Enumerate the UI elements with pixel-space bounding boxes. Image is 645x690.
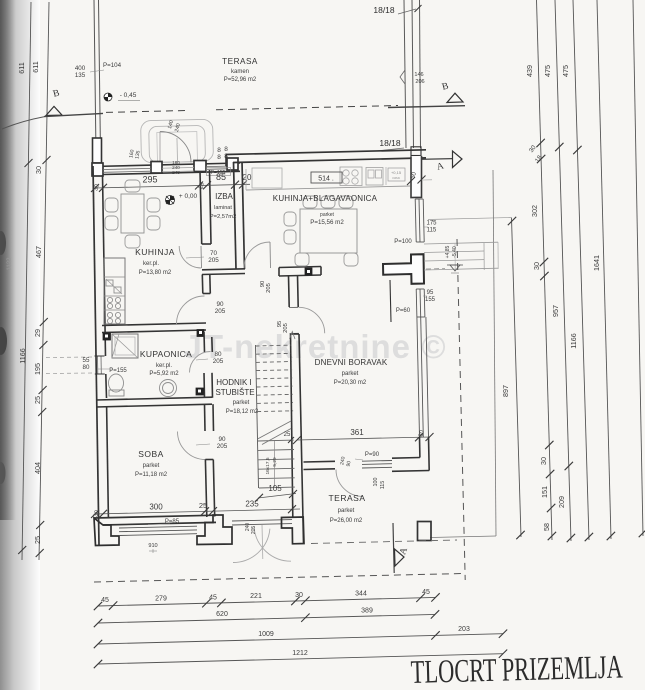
kitchen counter [104, 258, 125, 324]
svg-text:235: 235 [245, 500, 259, 509]
svg-text:5,29: 5,29 [272, 457, 278, 467]
svg-text:205: 205 [217, 443, 228, 450]
scan blob 3 [0, 462, 6, 484]
svg-text:1641: 1641 [592, 255, 601, 271]
svg-text:parket: parket [143, 463, 160, 469]
svg-text:439: 439 [525, 65, 534, 77]
svg-text:90: 90 [218, 436, 226, 443]
svg-text:389: 389 [361, 607, 373, 614]
svg-text:SOBA: SOBA [138, 449, 164, 459]
chimney lines top right [404, 0, 406, 148]
svg-text:146: 146 [414, 72, 423, 78]
svg-text:611: 611 [17, 62, 26, 73]
soba east wall [204, 404, 207, 431]
kitchen terrace door arc [160, 132, 191, 163]
svg-text:897: 897 [501, 385, 510, 397]
staircase [256, 332, 296, 489]
terrace window P90 [362, 460, 392, 463]
svg-text:25: 25 [33, 536, 42, 544]
svg-text:400: 400 [75, 65, 86, 72]
vest line [390, 280, 391, 322]
west wall inner lower [107, 406, 109, 517]
hall west wall upper [201, 275, 204, 294]
svg-text:205: 205 [208, 257, 219, 264]
svg-text:parket: parket [342, 371, 359, 377]
svg-text:P=20,30 m2: P=20,30 m2 [334, 380, 367, 386]
door stop sq bath [196, 388, 204, 395]
section marker A bottom [393, 523, 394, 573]
living south wall left [304, 460, 336, 463]
marker -0,45 [104, 92, 140, 101]
soba door arc [178, 432, 206, 460]
dim row soba [95, 509, 300, 514]
izba west wall [200, 171, 202, 244]
entry dashes [426, 268, 445, 271]
svg-text:475: 475 [561, 65, 570, 77]
izba door arc [200, 246, 203, 268]
svg-text:205: 205 [266, 283, 272, 293]
hall se pier [282, 517, 305, 544]
dining step connector [225, 155, 227, 167]
svg-text:209: 209 [557, 496, 566, 508]
svg-text:KUHINJA: KUHINJA [135, 247, 175, 257]
izba window north [206, 165, 227, 168]
svg-text:P=18,12 m2: P=18,12 m2 [226, 409, 259, 415]
svg-text:16x17,5: 16x17,5 [265, 457, 271, 474]
svg-text:- 0,45: - 0,45 [120, 92, 137, 99]
west wall outer [93, 166, 99, 545]
svg-text:240: 240 [172, 170, 180, 175]
svg-text:ker.pl.: ker.pl. [156, 363, 172, 369]
north wall dining outer [226, 150, 426, 155]
svg-text:laminat: laminat [214, 205, 232, 211]
terrace door arc [336, 470, 363, 497]
entry steps [424, 242, 498, 244]
svg-text:18/18: 18/18 [379, 138, 401, 148]
svg-text:45: 45 [101, 597, 109, 604]
svg-text:910: 910 [148, 543, 157, 549]
svg-text:205: 205 [251, 526, 257, 535]
svg-text:467: 467 [34, 246, 43, 258]
svg-text:45: 45 [422, 589, 430, 596]
svg-text:8: 8 [217, 154, 221, 161]
svg-text:HODNIK I: HODNIK I [216, 378, 252, 387]
bath door arc [190, 352, 211, 373]
svg-text:parket: parket [338, 508, 355, 514]
north wall kitchen outer [93, 163, 240, 167]
svg-text:206: 206 [415, 79, 424, 85]
svg-text:TERASA: TERASA [328, 493, 365, 503]
soba se pier [197, 515, 232, 545]
svg-text:45: 45 [209, 594, 217, 601]
dining table [284, 196, 358, 266]
svg-text:DNEVNI BORAVAK: DNEVNI BORAVAK [315, 358, 388, 367]
svg-text:P=100: P=100 [394, 239, 412, 245]
svg-text:20: 20 [243, 173, 252, 182]
terrace pillar [418, 522, 432, 541]
svg-text:parket: parket [320, 212, 335, 218]
svg-text:58: 58 [542, 523, 551, 531]
T wall horizontal [279, 267, 321, 268]
svg-text:205: 205 [213, 358, 224, 365]
kitchen table [105, 180, 160, 248]
terrace dashed north [311, 540, 457, 544]
svg-text:1166: 1166 [569, 333, 578, 348]
terrace dashed south [94, 574, 463, 583]
title TLOCRT PRIZEMLJA [410, 649, 623, 690]
bathroom fixtures [109, 334, 177, 397]
living window east [417, 317, 420, 437]
bath east wall lower [203, 373, 206, 398]
window 95/155 east [415, 289, 418, 317]
svg-text:STUBIŠTE: STUBIŠTE [215, 388, 254, 397]
svg-text:155: 155 [425, 297, 436, 303]
dining window east [415, 199, 416, 242]
svg-text:1009: 1009 [258, 631, 274, 638]
svg-text:29: 29 [33, 329, 42, 337]
svg-text:IZBA: IZBA [215, 192, 233, 201]
bath south wall [96, 397, 212, 400]
living south corner [428, 437, 431, 471]
kitchen door threshold [162, 167, 194, 170]
kitchen south wall [102, 323, 206, 326]
svg-text:TERASA: TERASA [222, 57, 258, 66]
dining west wall [234, 162, 237, 269]
svg-text:+0,15: +0,15 [391, 170, 402, 175]
svg-text:344: 344 [355, 591, 367, 598]
svg-text:475: 475 [543, 65, 552, 77]
svg-text:300: 300 [149, 503, 163, 512]
chimney box [411, 147, 421, 156]
svg-text:302: 302 [530, 205, 539, 217]
svg-text:404: 404 [33, 462, 42, 474]
soba window [119, 526, 197, 528]
svg-text:95: 95 [427, 290, 434, 296]
svg-text:279: 279 [155, 596, 167, 603]
svg-text:P=26,00 m2: P=26,00 m2 [330, 518, 363, 524]
svg-text:175: 175 [426, 221, 437, 227]
svg-text:115: 115 [427, 228, 437, 234]
svg-text:P=11,18 m2: P=11,18 m2 [135, 472, 168, 478]
terrace dashed east [457, 239, 465, 580]
svg-text:295: 295 [142, 175, 157, 185]
scan blob 2 [0, 327, 7, 355]
hall north wall [202, 269, 245, 270]
dim 897 ext line [428, 218, 512, 220]
svg-text:kamen: kamen [231, 69, 249, 75]
north pier 3 [194, 161, 206, 172]
north wall dining inner [233, 158, 426, 163]
svg-text:115: 115 [380, 481, 386, 490]
svg-text:KUHINJA+BLAGAVAONICA: KUHINJA+BLAGAVAONICA [273, 194, 378, 203]
svg-text:1166: 1166 [18, 348, 27, 363]
west wall inner mid [105, 374, 108, 398]
scan blob 1 [0, 231, 6, 255]
svg-text:361: 361 [350, 428, 364, 437]
svg-text:P=104: P=104 [103, 62, 122, 69]
svg-text:195: 195 [33, 363, 42, 375]
svg-text:30: 30 [295, 592, 303, 599]
outside stair outline [141, 119, 214, 163]
svg-text:25: 25 [199, 501, 207, 510]
soba south wall [94, 515, 216, 518]
marker +0,00 [166, 193, 198, 205]
svg-text:KUPAONICA: KUPAONICA [140, 349, 192, 359]
svg-text:+4,85: +4,85 [445, 245, 451, 258]
dim 361 [297, 437, 430, 440]
dining door arc [244, 242, 270, 268]
svg-text:70: 70 [210, 250, 218, 257]
svg-text:957: 957 [551, 305, 560, 317]
svg-text:30: 30 [539, 457, 548, 465]
svg-text:205: 205 [215, 308, 226, 315]
NW corner pier [92, 163, 103, 176]
svg-text:30: 30 [34, 166, 43, 174]
svg-text:30: 30 [532, 262, 541, 270]
svg-text:casa: casa [392, 176, 399, 180]
north pier 4 [227, 158, 238, 170]
door stop black square [305, 268, 312, 275]
north pier 2 [151, 162, 162, 174]
right dimension lines [508, 0, 645, 542]
scan gutter dark top strip [0, 0, 16, 520]
level triangle [450, 265, 460, 271]
NE pier outline [411, 156, 422, 198]
svg-text:P=2,57m2: P=2,57m2 [210, 214, 237, 220]
svg-text:8: 8 [217, 147, 221, 154]
hall-living door [289, 306, 298, 308]
svg-text:TLOCRT PRIZEMLJA: TLOCRT PRIZEMLJA [410, 649, 623, 690]
svg-text:P=60: P=60 [396, 308, 411, 314]
svg-text:80: 80 [214, 351, 222, 358]
svg-text:P=52,96 m2: P=52,96 m2 [224, 77, 257, 83]
north wall kitchen inner [103, 171, 240, 174]
dim 105 [258, 494, 296, 499]
door stop sq kitchen [103, 333, 111, 340]
soba sw pier [94, 518, 119, 546]
svg-text:203: 203 [458, 626, 470, 633]
boundary wall above kitchen [94, 0, 96, 138]
label P=155 izba [207, 168, 231, 176]
west wall inner upper [103, 175, 106, 356]
svg-text:parket: parket [233, 400, 250, 406]
svg-text:80: 80 [83, 364, 90, 371]
living west wall [291, 334, 293, 517]
svg-text:514 .: 514 . [318, 176, 334, 183]
svg-text:8: 8 [224, 146, 228, 153]
svg-text:100: 100 [373, 478, 379, 487]
svg-text:55: 55 [83, 357, 90, 364]
svg-text:+ 0,00: + 0,00 [179, 193, 198, 200]
svg-text:1212: 1212 [292, 650, 308, 657]
svg-text:P=5,92 m2: P=5,92 m2 [149, 371, 179, 377]
svg-text:18/18: 18/18 [373, 5, 395, 15]
svg-text:221: 221 [250, 593, 262, 600]
terrace dashed edge [106, 111, 186, 113]
svg-text:90: 90 [216, 301, 224, 308]
label small hatch box [388, 168, 405, 181]
label 514 box [311, 172, 342, 183]
soba east wall lower [205, 460, 206, 518]
svg-text:1122: 1122 [7, 257, 13, 271]
dining counter [246, 167, 410, 190]
svg-text:P=13,80 m2: P=13,80 m2 [139, 270, 172, 276]
svg-text:P=90: P=90 [365, 452, 380, 458]
svg-text:620: 620 [216, 611, 228, 618]
svg-text:P=15,56 m2: P=15,56 m2 [310, 219, 344, 226]
svg-text:611: 611 [31, 61, 40, 72]
svg-text:205: 205 [283, 323, 289, 333]
section marker B left [2, 117, 44, 129]
french door opening [232, 520, 292, 521]
T wall stem [288, 276, 291, 307]
bottom dimension rows [94, 593, 507, 668]
svg-text:25: 25 [284, 432, 291, 438]
svg-text:85: 85 [216, 172, 226, 182]
svg-text:105: 105 [268, 484, 282, 493]
entry wall cross outline [383, 254, 424, 284]
boundary wall pier [93, 138, 102, 163]
dim row 295 [95, 184, 250, 188]
bath east wall upper [203, 332, 206, 352]
kitchen window north [103, 168, 151, 169]
svg-text:ker.pl.: ker.pl. [143, 261, 159, 267]
door stop sq kitchen2 [197, 330, 204, 337]
french door arcs [233, 529, 270, 563]
section arrow A top [413, 158, 452, 161]
left dimension lines [18, 2, 50, 560]
svg-text:135: 135 [75, 72, 86, 79]
frame line [493, 170, 496, 536]
bathroom window west [97, 356, 99, 374]
kitchen south door arc [177, 296, 205, 324]
svg-text:25: 25 [33, 396, 42, 404]
svg-text:151: 151 [540, 486, 549, 498]
